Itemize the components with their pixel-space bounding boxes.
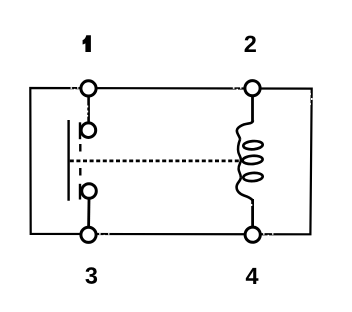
actuator dashed line vertical lower dash	[79, 168, 81, 176]
relay case outline	[30, 88, 311, 234]
coil loop 2	[242, 155, 263, 165]
wire terminal 2 to coil	[251, 96, 254, 123]
lower contact	[82, 184, 97, 199]
coil spine	[238, 139, 241, 177]
coil loop 3	[243, 172, 263, 182]
actuator dashed line vertical upper dash	[79, 144, 81, 152]
upper contact flat edge	[79, 122, 81, 139]
wire terminal1 to upper contact	[87, 96, 90, 122]
terminal 1	[81, 81, 96, 96]
pin label 1	[83, 35, 91, 52]
coil top hook	[237, 121, 253, 140]
coil loop 1	[243, 140, 263, 150]
scan artifact notches (white)	[71, 87, 313, 236]
terminal 3	[81, 227, 96, 242]
wire coil to terminal 4	[251, 199, 254, 227]
upper contact	[81, 123, 96, 138]
wire lower contact to terminal 3	[87, 199, 90, 227]
mechanical linkage dashed line horizontal	[70, 160, 241, 163]
coil bottom hook	[237, 177, 253, 200]
terminal 4	[245, 227, 260, 242]
terminal 2	[245, 81, 260, 96]
pin label 2	[245, 36, 256, 52]
switch armature bar	[67, 120, 69, 201]
pin label 4	[246, 268, 259, 284]
lower contact flat edge	[79, 184, 81, 200]
pin label 3	[85, 267, 97, 284]
